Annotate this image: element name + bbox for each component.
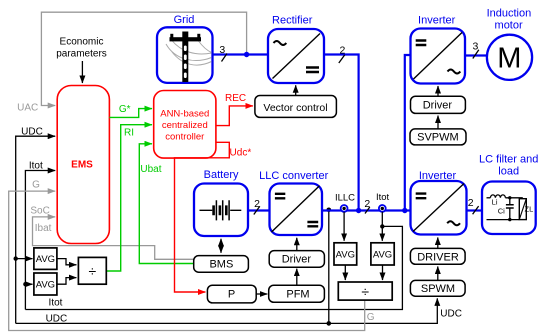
svg-text:REC: REC <box>225 93 246 104</box>
node Itot <box>376 192 390 212</box>
wire SPWM to DRIVER <box>437 267 439 281</box>
block Driver (LLC) <box>269 251 324 268</box>
wire G into EMS (gray, from divider) <box>9 180 375 331</box>
wire Itot into EMS <box>25 160 62 309</box>
svg-text:parameters: parameters <box>56 48 107 59</box>
svg-text:SVPWM: SVPWM <box>417 131 459 143</box>
svg-text:BMS: BMS <box>209 258 233 270</box>
svg-text:Ibat: Ibat <box>35 223 52 234</box>
svg-text:UDC: UDC <box>440 309 462 320</box>
svg-text:M: M <box>497 43 521 75</box>
grid pole icon <box>166 32 212 83</box>
wire economic parameters into EMS <box>81 61 83 83</box>
wire RI from divider to controller (green) <box>106 125 152 271</box>
wire PFM to Driver <box>296 269 298 286</box>
block PFM <box>269 285 325 302</box>
node ILLC <box>335 193 355 212</box>
svg-text:AVG: AVG <box>373 249 392 260</box>
capacitor Ci <box>498 196 514 221</box>
svg-text:LLC converter: LLC converter <box>259 170 328 182</box>
svg-text:Itot: Itot <box>29 160 43 171</box>
svg-text:ZL: ZL <box>525 204 534 213</box>
wire Itot bottom run <box>25 226 402 309</box>
inductor Li <box>487 195 523 207</box>
block P <box>207 285 256 303</box>
svg-text:Inverter: Inverter <box>418 15 456 27</box>
junction UDC/DC-bus tap <box>327 208 332 326</box>
svg-text:Ci: Ci <box>498 206 505 215</box>
block ANN-based centralized controller <box>154 91 216 159</box>
battery symbol <box>200 200 242 220</box>
wire REC controller to Vector control (red) <box>216 93 253 125</box>
svg-text:Rectifier: Rectifier <box>272 15 313 27</box>
svg-text:÷: ÷ <box>89 263 97 279</box>
block Battery <box>194 169 248 236</box>
svg-text:3: 3 <box>219 44 225 56</box>
svg-text:3: 3 <box>472 40 478 52</box>
svg-text:2: 2 <box>364 198 370 210</box>
block Vector control <box>255 96 337 118</box>
svg-text:UDC: UDC <box>21 126 43 137</box>
svg-text:ILLC: ILLC <box>335 193 355 204</box>
wire Ubat from BMS to controller (green) <box>139 144 193 264</box>
block divider 2 <box>338 282 392 300</box>
svg-text:DRIVER: DRIVER <box>417 251 459 263</box>
svg-text:AVG: AVG <box>36 254 55 265</box>
svg-text:AVG: AVG <box>336 249 355 260</box>
wire Itot line to AVG <box>23 282 32 286</box>
wire driver to inverter <box>437 86 439 96</box>
svg-text:G*: G* <box>119 104 131 115</box>
svg-text:G: G <box>32 180 40 191</box>
svg-text:Itot: Itot <box>49 298 63 309</box>
wire inverter2 to LC filter (blue) <box>467 197 483 214</box>
svg-text:EMS: EMS <box>71 160 93 171</box>
svg-text:Udc*: Udc* <box>230 148 252 159</box>
wire Itot to AVG with junction <box>380 212 384 241</box>
svg-text:PFM: PFM <box>286 289 309 301</box>
wire P to PFM <box>256 293 267 295</box>
block LLC converter <box>259 170 328 235</box>
svg-text:Driver: Driver <box>423 99 453 111</box>
wire inverter to motor (blue 3-phase) <box>465 40 487 58</box>
svg-text:P: P <box>228 289 235 301</box>
svg-text:Economic: Economic <box>60 36 104 47</box>
wires AVGs to divider 1 <box>57 259 77 265</box>
wire rectifier output to DC bus (blue) <box>324 44 361 213</box>
svg-text:RI: RI <box>124 127 134 138</box>
svg-text:Ubat: Ubat <box>140 164 161 175</box>
svg-text:motor: motor <box>495 19 523 31</box>
block DRIVER (inverter2) <box>410 248 465 264</box>
wire UDC bottom run to SPWM <box>16 298 462 324</box>
svg-text:LC filter and: LC filter and <box>479 154 538 166</box>
svg-text:Battery: Battery <box>204 169 239 181</box>
wires AVGs to divider 2 <box>344 265 346 280</box>
wire UAC (gray, from AC line to EMS) <box>17 12 246 113</box>
block AVG (UDC) <box>34 248 57 270</box>
wire DRIVER to inverter2 <box>437 238 439 249</box>
svg-text:SPWM: SPWM <box>421 283 455 295</box>
wire UDC line to AVG <box>14 256 33 260</box>
block SPWM <box>410 280 465 296</box>
wire grid to rectifier (blue 3-phase) <box>213 44 269 62</box>
svg-text:Driver: Driver <box>282 254 312 266</box>
block LC filter and load <box>479 154 538 234</box>
svg-text:controller: controller <box>165 132 204 143</box>
svg-text:UDC: UDC <box>46 313 68 324</box>
block Rectifier <box>268 15 324 83</box>
block BMS <box>194 256 249 273</box>
svg-text:G: G <box>367 312 375 323</box>
block SVPWM <box>410 129 466 145</box>
label Economic parameters <box>56 36 107 59</box>
wire DC bus (blue) <box>322 198 411 213</box>
block divider 1 <box>78 257 106 284</box>
block Grid <box>157 14 213 83</box>
svg-text:2: 2 <box>254 198 260 210</box>
block AVG (Itot left) <box>34 273 57 295</box>
block AVG (ILLC) <box>334 243 357 265</box>
wire Udc* controller to P (red) <box>175 142 252 292</box>
block Induction motor M <box>487 8 533 80</box>
wire battery-BMS double arrow <box>220 239 222 253</box>
svg-text:AVG: AVG <box>36 280 55 291</box>
svg-text:Li: Li <box>492 198 498 207</box>
wire SoC from BMS into EMS (gray) <box>30 206 193 260</box>
wire DC bus to inverter <box>402 55 410 213</box>
svg-text:2: 2 <box>468 197 474 209</box>
svg-text:centralized: centralized <box>162 120 208 131</box>
wire UDC into EMS <box>16 126 56 323</box>
svg-text:2: 2 <box>339 44 345 56</box>
block Inverter (motor side) <box>411 15 466 84</box>
svg-text:Grid: Grid <box>174 14 195 26</box>
svg-text:SoC: SoC <box>30 206 49 217</box>
wire battery to LLC (blue) <box>248 198 270 214</box>
svg-text:ANN-based: ANN-based <box>160 108 209 119</box>
svg-text:Induction: Induction <box>487 8 532 20</box>
block EMS <box>57 86 109 244</box>
load ZL <box>487 199 534 220</box>
svg-text:÷: ÷ <box>361 284 369 300</box>
svg-text:Itot: Itot <box>376 192 390 203</box>
wire SVPWM to driver <box>437 116 439 129</box>
wire ILLC to AVG <box>343 212 345 241</box>
svg-text:load: load <box>498 165 519 177</box>
wire vector control to rectifier <box>295 85 297 95</box>
block AVG (Itot right) <box>371 243 394 265</box>
svg-text:UAC: UAC <box>17 102 38 113</box>
svg-text:Inverter: Inverter <box>419 170 457 182</box>
block Driver (inverter) <box>411 96 466 113</box>
wire Driver to LLC <box>296 238 298 251</box>
svg-text:Vector control: Vector control <box>263 102 327 114</box>
block Inverter 2 (load side) <box>411 170 467 235</box>
wire G* EMS to controller (green) <box>109 104 152 117</box>
